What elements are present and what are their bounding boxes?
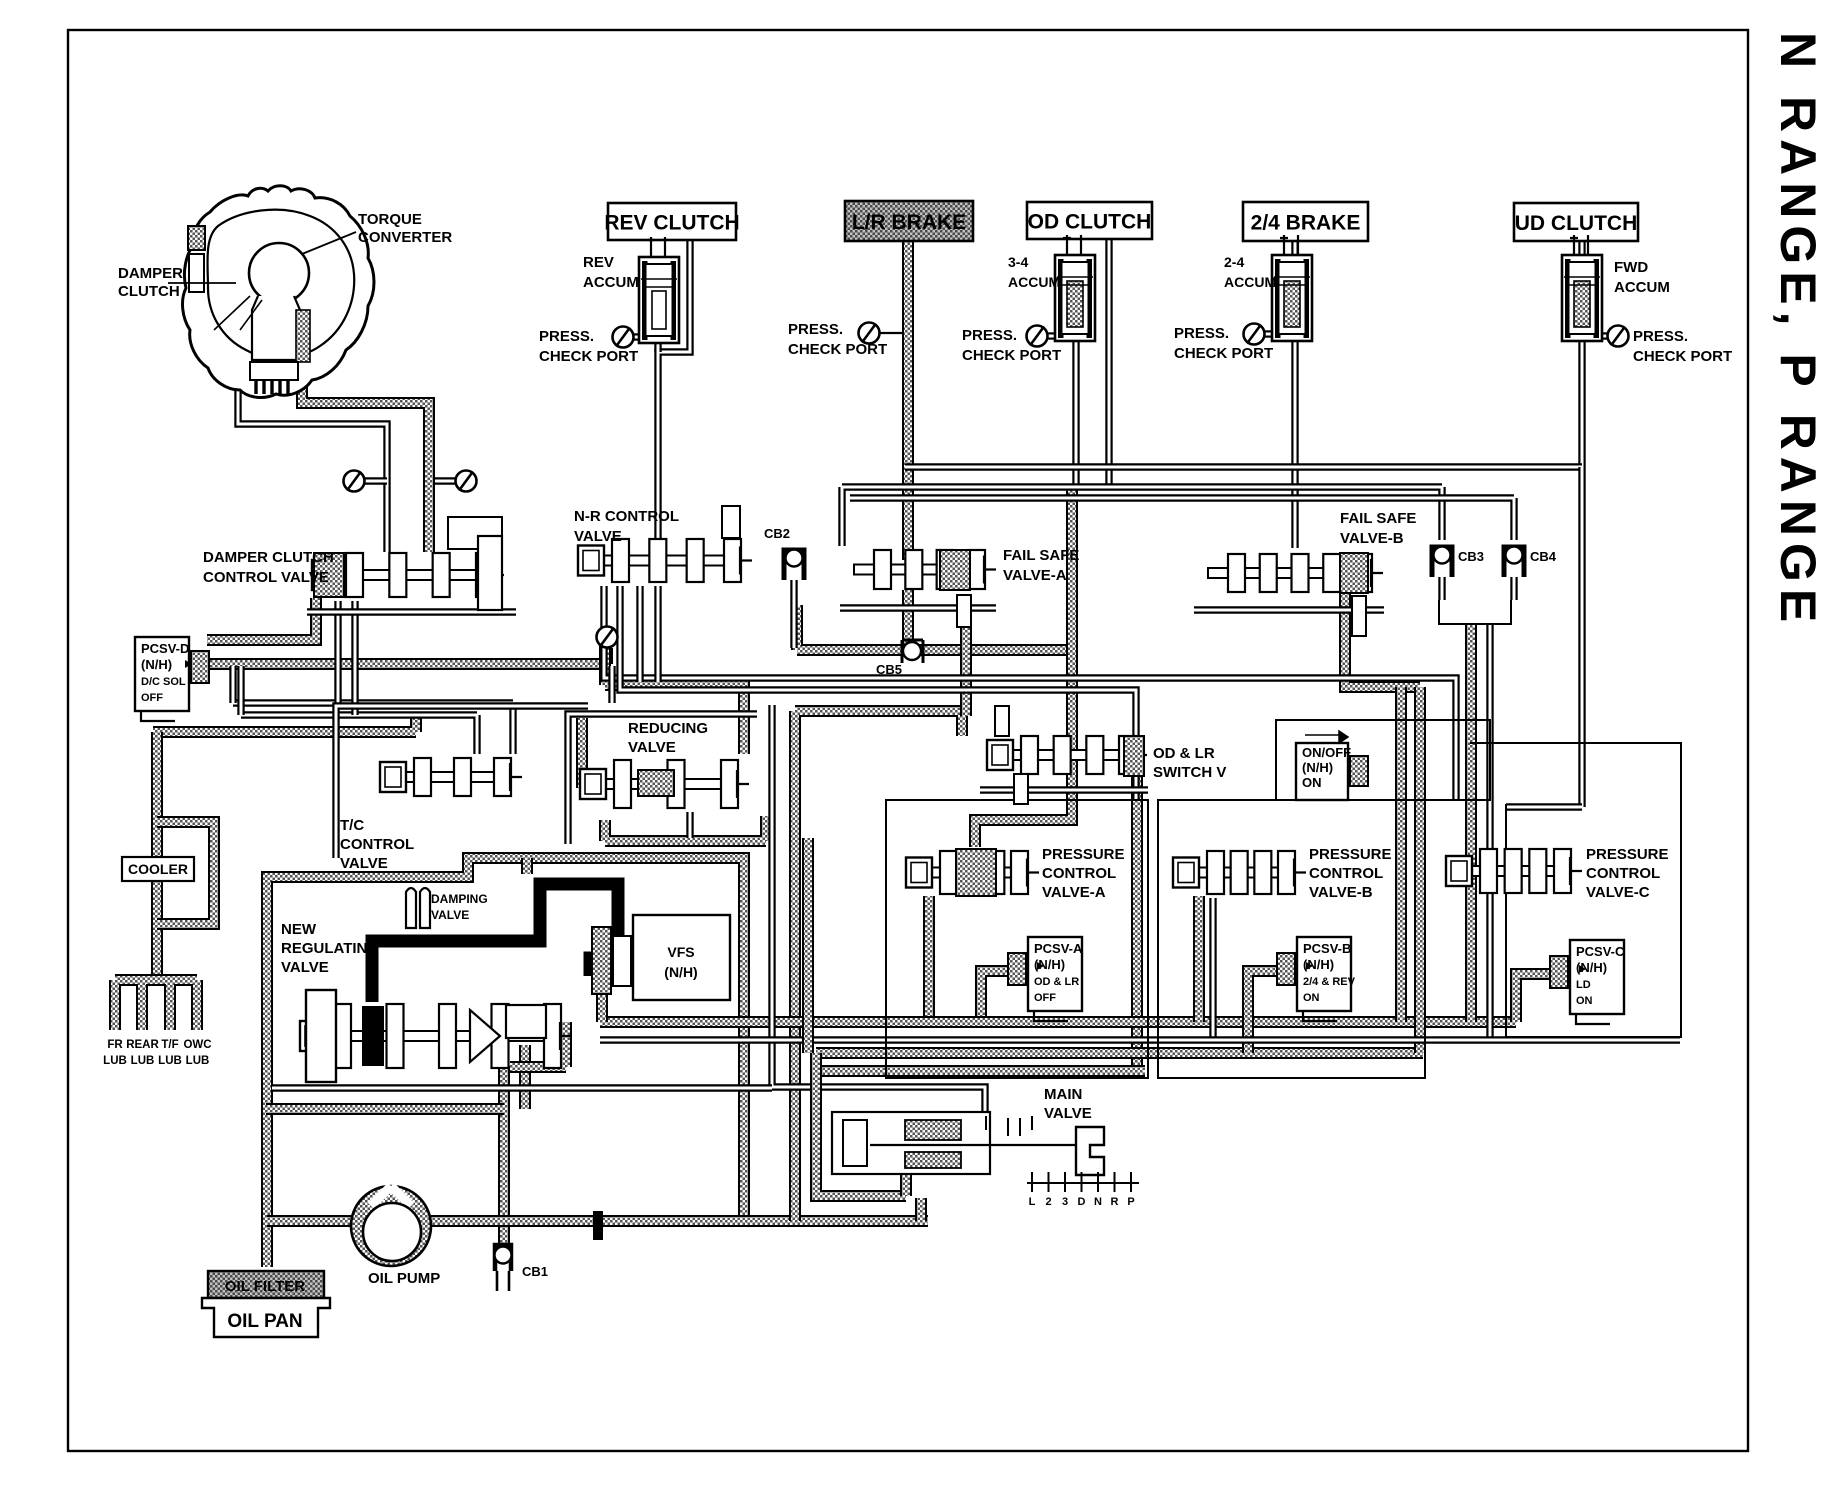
wire: N-R drain stub 1: [636, 586, 643, 682]
accumulator FWD ACCUM: [1570, 235, 1588, 255]
pipe: regulating valve to CB1: [498, 1066, 510, 1244]
svg-text:(N/H): (N/H): [1303, 957, 1334, 972]
svg-text:VALVE: VALVE: [574, 528, 622, 545]
oil filter: [208, 1271, 324, 1298]
wire: REV accum stub: [654, 343, 661, 352]
svg-text:LD: LD: [1576, 979, 1591, 991]
pipe: thin line below regulating valve: [272, 1084, 772, 1091]
svg-text:CONTROL: CONTROL: [1309, 865, 1383, 882]
pipe: DCCV drain upper: [233, 703, 513, 754]
pipe: main valve inner wrap: [906, 1142, 962, 1196]
svg-text:(N/H): (N/H): [1034, 957, 1065, 972]
cooler box: [122, 857, 194, 881]
pipe: pump suction: [267, 1215, 352, 1227]
wire: DCCV bottom stubs: [338, 601, 355, 715]
svg-text:ACCUM: ACCUM: [1614, 279, 1670, 296]
svg-text:DAMPER CLUTCH: DAMPER CLUTCH: [203, 549, 334, 566]
valve: pressure control valve A: [920, 868, 1027, 878]
pipe: oil pump discharge line: [431, 1215, 928, 1227]
pipe: UD line down to PCV-C: [1578, 467, 1585, 807]
pipe: cooler feed line: [153, 714, 416, 732]
svg-text:REDUCING: REDUCING: [628, 720, 708, 737]
svg-text:FAIL SAFE: FAIL SAFE: [1003, 547, 1079, 564]
header box REV CLUTCH: [608, 203, 736, 240]
pipe: PCV-B drain: [1193, 896, 1205, 1022]
pipe: N-R drain bus upper: [604, 586, 1456, 800]
damper clutch (inner circle): [249, 243, 309, 303]
pipe: OD-LR switch drain to bus2: [1131, 777, 1143, 1071]
svg-text:PRESSURE: PRESSURE: [1586, 846, 1669, 863]
wire: PCV-B thin drain: [1209, 898, 1216, 1037]
wire: CB2 down: [790, 577, 797, 648]
pipe: CB5 line: [797, 605, 1077, 650]
pipe: 2/4 brake line: [1291, 241, 1298, 548]
valve: OD & LR switch valve: [1001, 750, 1135, 760]
solenoid PCSV-B: [1297, 937, 1351, 1011]
check ball CB3: [1432, 547, 1452, 577]
press check port (line): [597, 627, 618, 648]
wire: FWD check port stem: [1602, 332, 1608, 339]
solenoid ON/OFF: [1296, 743, 1348, 800]
press check port (OD): [1027, 326, 1048, 347]
svg-text:ACCUM: ACCUM: [1008, 274, 1060, 290]
wire: drain stubs to main line: [233, 666, 241, 715]
svg-text:FWD: FWD: [1614, 259, 1648, 276]
svg-text:ON: ON: [1576, 995, 1593, 1007]
solenoid VFS: [633, 915, 730, 1000]
svg-text:OIL FILTER: OIL FILTER: [225, 1278, 305, 1295]
enclosure around ON/OFF solenoid: [1276, 720, 1490, 800]
svg-text:PRESS.: PRESS.: [1174, 325, 1229, 342]
pipe: REV clutch line: [658, 240, 690, 538]
svg-text:VALVE: VALVE: [628, 739, 676, 756]
pipe: cooler bypass loop: [157, 822, 214, 924]
valve: N-R control valve: [592, 556, 740, 566]
header box 2/4 BRAKE: [1243, 202, 1368, 241]
svg-text:PRESS.: PRESS.: [539, 328, 594, 345]
valve: T/C control valve: [394, 772, 510, 782]
svg-text:CHECK PORT: CHECK PORT: [788, 341, 887, 358]
svg-text:VALVE: VALVE: [1044, 1105, 1092, 1122]
header box OD CLUTCH: [1027, 202, 1152, 239]
svg-text:L/R BRAKE: L/R BRAKE: [852, 211, 966, 234]
wire: reducing valve housing outline: [568, 714, 757, 844]
valve: damper clutch control valve: [326, 570, 492, 580]
pipe: PCSV-D output line: [210, 658, 607, 670]
svg-text:SWITCH V: SWITCH V: [1153, 764, 1226, 781]
enclosure around PCV-A group: [886, 800, 1148, 1078]
svg-text:VALVE: VALVE: [340, 855, 388, 872]
svg-text:3: 3: [1062, 1196, 1068, 1208]
pipe: N-R drain bus lower: [620, 586, 1136, 800]
pipe: thin bus 3: [600, 1036, 1680, 1043]
svg-text:CHECK PORT: CHECK PORT: [539, 348, 638, 365]
wire: FSV-B housing lower rail: [1194, 606, 1384, 613]
svg-text:(N/H): (N/H): [664, 964, 697, 980]
svg-text:ACCUM: ACCUM: [1224, 274, 1276, 290]
svg-text:PRESSURE: PRESSURE: [1042, 846, 1125, 863]
svg-text:UD CLUTCH: UD CLUTCH: [1515, 212, 1637, 235]
svg-text:VALVE-C: VALVE-C: [1586, 884, 1650, 901]
converter left seal pack: [188, 226, 205, 250]
pipe: L/R brake line (hatched): [902, 241, 914, 560]
svg-text:CHECK PORT: CHECK PORT: [1174, 345, 1273, 362]
svg-text:CONTROL: CONTROL: [1586, 865, 1660, 882]
pipe: PCV-A drain to main bus: [923, 896, 935, 1022]
wire: regulating valve drain stub: [519, 1045, 531, 1109]
svg-text:VALVE: VALVE: [431, 908, 469, 922]
svg-text:OIL PAN: OIL PAN: [227, 1311, 302, 1332]
wire: check port stub right: [435, 477, 457, 484]
oil pump: [351, 1186, 431, 1266]
press check port (UD): [1608, 326, 1629, 347]
pipe: fail safe A riser to PCV-A: [975, 490, 1072, 847]
svg-text:(N/H): (N/H): [141, 657, 172, 672]
svg-text:VALVE-B: VALVE-B: [1340, 530, 1404, 547]
wire: DCCV housing lower rail: [307, 608, 516, 615]
orifice on pump discharge: [593, 1211, 603, 1240]
svg-text:P: P: [1127, 1196, 1134, 1208]
svg-text:CB5: CB5: [876, 662, 902, 677]
pipe: PCSV-A feed: [981, 971, 1008, 1022]
svg-text:3-4: 3-4: [1008, 254, 1028, 270]
pipe: regulating valve drain to bus1: [510, 1022, 566, 1067]
svg-text:T/C: T/C: [340, 817, 364, 834]
svg-text:CLUTCH: CLUTCH: [118, 283, 180, 300]
wire: PCV-C enclosure top: [1506, 803, 1582, 810]
svg-text:CHECK PORT: CHECK PORT: [962, 347, 1061, 364]
svg-text:VALVE-B: VALVE-B: [1309, 884, 1373, 901]
svg-text:2/4 BRAKE: 2/4 BRAKE: [1251, 212, 1361, 235]
check ball CB4: [1504, 547, 1524, 577]
pipe: DCCV drain to PCSV-D: [207, 598, 316, 640]
pipe: torque converter to damper clutch control valve: [302, 320, 429, 552]
header box L/R BRAKE: [845, 201, 973, 241]
svg-text:OD CLUTCH: OD CLUTCH: [1028, 211, 1152, 234]
connection: CB3 CB4 junction box: [1439, 600, 1511, 624]
press check port (REV): [613, 327, 634, 348]
svg-text:PCSV-C: PCSV-C: [1576, 944, 1625, 959]
accumulator REV ACCUM: [647, 237, 665, 257]
pipe: main line bus 2b: [818, 1065, 1145, 1077]
svg-text:OFF: OFF: [1034, 992, 1056, 1004]
pipe: reducing valve drain: [605, 816, 766, 841]
svg-text:OD & LR: OD & LR: [1153, 745, 1215, 762]
wire: loop stub: [521, 858, 533, 874]
svg-text:OD & LR: OD & LR: [1034, 976, 1079, 988]
wire: FSV-A drain stub: [960, 601, 972, 716]
wire: T/C valve housing outline: [336, 706, 588, 858]
svg-text:VALVE-A: VALVE-A: [1003, 567, 1067, 584]
pipe: main riser to OD-LR switch: [795, 711, 962, 1221]
svg-text:CB3: CB3: [1458, 549, 1484, 564]
svg-text:PRESS.: PRESS.: [788, 321, 843, 338]
wire: FSV-A housing lower rail: [840, 604, 996, 611]
solenoid PCSV-A: [1028, 937, 1082, 1011]
svg-text:T/F: T/F: [161, 1039, 178, 1051]
accumulator 2-4 ACCUM: [1280, 235, 1298, 255]
pipe: bus1 to PCSV-C coil: [1516, 974, 1552, 1022]
pipe: lubrication manifold comb: [115, 980, 197, 1030]
wire: N-R drain stub 2: [654, 586, 661, 682]
oil pan: [202, 1298, 330, 1337]
svg-text:N RANGE, P RANGE: N RANGE, P RANGE: [1770, 32, 1826, 629]
pipe: torque converter return: [238, 376, 387, 552]
svg-text:CONTROL VALVE: CONTROL VALVE: [203, 569, 329, 586]
wire: check port stub left: [365, 477, 387, 484]
check port (converter left): [344, 471, 365, 492]
svg-text:CB4: CB4: [1530, 549, 1557, 564]
svg-text:LUB: LUB: [131, 1055, 155, 1067]
wire: REV check port stem: [633, 333, 641, 340]
pipe: 3-4 accum line: [1072, 342, 1079, 487]
svg-text:(N/H): (N/H): [1302, 760, 1333, 775]
svg-text:L: L: [1029, 1196, 1036, 1208]
svg-text:R: R: [1111, 1196, 1119, 1208]
svg-text:CONTROL: CONTROL: [340, 836, 414, 853]
torque converter body: [183, 186, 374, 398]
header box UD CLUTCH: [1514, 203, 1638, 241]
svg-text:PRESSURE: PRESSURE: [1309, 846, 1392, 863]
svg-text:LUB: LUB: [103, 1055, 127, 1067]
svg-text:DAMPING: DAMPING: [431, 892, 488, 906]
svg-text:2-4: 2-4: [1224, 254, 1244, 270]
valve: fail safe valve A: [854, 565, 984, 575]
valve: pressure control valve B: [1187, 868, 1294, 878]
pipe: DCCV drain lower: [241, 715, 477, 754]
pipe: PCSV-B feed: [1248, 971, 1277, 1053]
svg-text:REV: REV: [583, 254, 614, 271]
svg-text:PRESS.: PRESS.: [962, 327, 1017, 344]
svg-text:LUB: LUB: [158, 1055, 182, 1067]
pipe: pump line to main valve: [915, 1198, 927, 1221]
svg-text:MAIN: MAIN: [1044, 1086, 1082, 1103]
svg-text:LUB: LUB: [186, 1055, 210, 1067]
pipe: hatched riser x808: [802, 838, 814, 1053]
check ball CB2: [784, 550, 804, 580]
svg-text:(N/H): (N/H): [1576, 960, 1607, 975]
leader: damper clutch: [168, 282, 236, 284]
pipe: cooler riser: [151, 732, 163, 982]
svg-text:TORQUE: TORQUE: [358, 211, 422, 228]
pipe: main line bus 1: [600, 1016, 1516, 1028]
svg-text:D: D: [1078, 1196, 1086, 1208]
pipe: CB3 riser: [1465, 624, 1477, 1022]
press check port (2/4): [1244, 324, 1265, 345]
wire: check port stub: [601, 648, 613, 664]
check port (converter right): [456, 471, 477, 492]
svg-text:2/4 & REV: 2/4 & REV: [1303, 976, 1356, 988]
svg-text:REV CLUTCH: REV CLUTCH: [604, 212, 739, 235]
pipe: oil filter riser / regulating valve loop: [267, 858, 744, 1267]
svg-text:ACCUM: ACCUM: [583, 274, 639, 291]
pipe: thin riser CB drop: [1486, 624, 1493, 1040]
svg-text:CB2: CB2: [764, 526, 790, 541]
wire: 2-4 check port stem: [1264, 330, 1274, 337]
svg-text:VFS: VFS: [667, 944, 694, 960]
wire: L/R below fail safe A: [902, 590, 914, 650]
enclosure around PCV-C group: [1470, 743, 1681, 1037]
svg-text:PCSV-A: PCSV-A: [1034, 941, 1083, 956]
torque converter hub: [250, 362, 298, 380]
svg-text:REAR: REAR: [126, 1039, 159, 1051]
valve: pressure control valve C: [1460, 866, 1570, 876]
check ball CB1: [495, 1245, 511, 1271]
svg-text:FAIL SAFE: FAIL SAFE: [1340, 510, 1416, 527]
svg-text:N-R CONTROL: N-R CONTROL: [574, 508, 679, 525]
svg-text:OIL PUMP: OIL PUMP: [368, 1270, 440, 1287]
svg-text:ON/OFF: ON/OFF: [1302, 745, 1351, 760]
svg-text:COOLER: COOLER: [128, 861, 188, 877]
pipe: cross line y467: [905, 463, 1582, 470]
pipe: OD clutch line: [1105, 240, 1112, 487]
pipe: VFS control line (solid black): [372, 884, 618, 1002]
svg-text:ON: ON: [1303, 992, 1320, 1004]
solenoid PCSV-D: [135, 637, 189, 711]
pipe: cross line y498 to CB4: [850, 498, 1514, 540]
svg-text:DAMPER: DAMPER: [118, 265, 183, 282]
pipe: riser to bus1: [1395, 687, 1407, 1022]
svg-text:VALVE-A: VALVE-A: [1042, 884, 1106, 901]
svg-text:CHECK PORT: CHECK PORT: [1633, 348, 1732, 365]
svg-text:VALVE: VALVE: [281, 959, 329, 976]
pipe: fail safe B drop: [1345, 594, 1420, 687]
valve: fail safe valve B: [1208, 568, 1371, 578]
svg-text:N: N: [1094, 1196, 1102, 1208]
damping valve: [406, 888, 430, 928]
svg-text:REGULATING: REGULATING: [281, 940, 379, 957]
pipe: long drop to main valve: [772, 705, 985, 1118]
pipe: N-R valve drain to reducing valve: [605, 642, 744, 754]
pipe: cross line y487 to CB3: [842, 487, 1442, 546]
svg-text:FR: FR: [107, 1039, 123, 1051]
wire: check port drain stub: [608, 666, 615, 703]
solenoid PCSV-C: [1570, 940, 1624, 1014]
wire: CB3 CB4 tails: [1442, 570, 1514, 600]
accumulator 3-4 ACCUM: [1063, 235, 1081, 255]
leader: torque converter: [302, 232, 356, 254]
svg-text:CB1: CB1: [522, 1264, 548, 1279]
pipe: riser to bus2: [1414, 687, 1426, 1053]
check ball CB5: [902, 640, 923, 663]
manual lever detent positions: [1027, 1182, 1139, 1184]
valve: reducing valve: [594, 779, 737, 789]
svg-text:NEW: NEW: [281, 921, 317, 938]
wire: switch housing lower rail: [980, 786, 1148, 793]
svg-text:D/C SOL: D/C SOL: [141, 676, 186, 688]
pipe: filter riser cross link: [266, 1103, 504, 1115]
pipe: main valve left wrap: [816, 1053, 906, 1196]
wire: 3-4 check port stem: [1047, 332, 1057, 339]
press check port (L/R): [859, 323, 880, 344]
svg-text:CONTROL: CONTROL: [1042, 865, 1116, 882]
svg-text:OWC: OWC: [183, 1039, 211, 1051]
svg-text:CONVERTER: CONVERTER: [358, 229, 452, 246]
svg-text:ON: ON: [1302, 775, 1322, 790]
valve: new regulating valve body: [314, 1031, 560, 1041]
wire: reducing valve drain stub: [686, 812, 693, 838]
svg-text:PRESS.: PRESS.: [1633, 328, 1688, 345]
pipe: reducing valve left feed: [576, 718, 588, 788]
svg-text:PCSV-D: PCSV-D: [141, 641, 189, 656]
svg-text:2: 2: [1045, 1196, 1051, 1208]
enclosure around PCV-B group: [1158, 800, 1425, 1078]
svg-text:OFF: OFF: [141, 692, 163, 704]
wire: VFS solenoid drain: [596, 992, 608, 1022]
pipe: main line bus 2: [816, 1047, 1423, 1059]
svg-text:PCSV-B: PCSV-B: [1303, 941, 1351, 956]
pipe: UD clutch line: [1578, 241, 1585, 467]
